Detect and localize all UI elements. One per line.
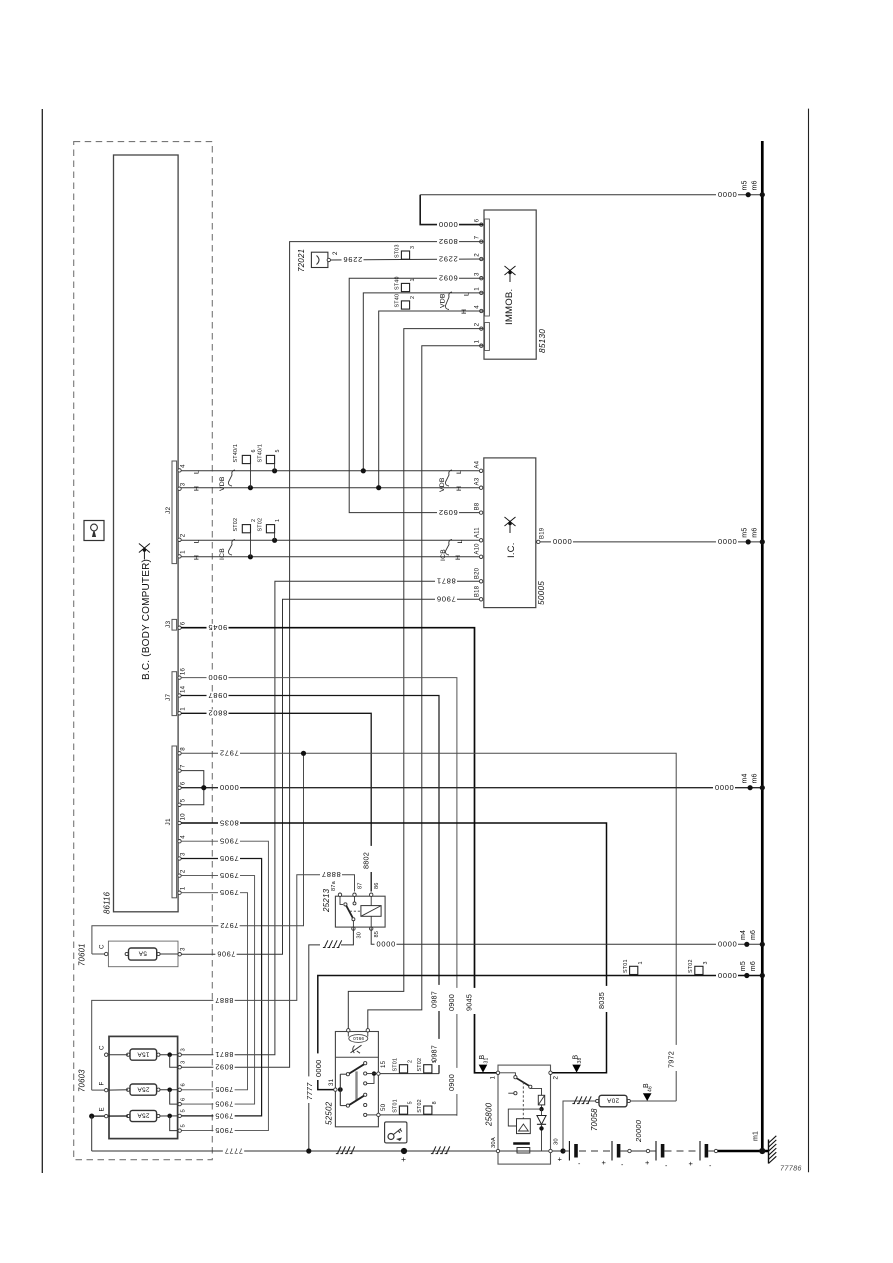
wire ICB-L row J2 pin2 to I.C. A11	[181, 539, 480, 541]
svg-text:8092: 8092	[438, 237, 458, 246]
svg-text:+: +	[689, 1159, 694, 1168]
wire ignition 15 row with ST01/ST02	[380, 1073, 439, 1075]
connector arrow B31	[479, 1065, 488, 1073]
wire fuse 70601 pin C lead	[92, 953, 106, 955]
svg-text:30: 30	[554, 1138, 560, 1145]
svg-text:1: 1	[410, 278, 416, 281]
svg-text:3: 3	[410, 246, 416, 249]
svg-text:-: -	[621, 1162, 624, 1169]
svg-text:C: C	[99, 944, 106, 949]
svg-text:H: H	[194, 486, 201, 491]
fuse 5A	[129, 948, 157, 960]
svg-text:2: 2	[332, 251, 339, 255]
svg-text:H: H	[461, 309, 468, 314]
connector ST02 pin2	[242, 525, 250, 533]
wire H row J2 pin3 to I.C. A3	[181, 487, 480, 489]
svg-text:3: 3	[180, 947, 187, 951]
wire 8887 relay 25213 pin87 to fuse 70603 pin F	[92, 875, 355, 1090]
svg-text:5: 5	[181, 1109, 187, 1112]
svg-text:2: 2	[180, 869, 187, 873]
svg-text:8871: 8871	[436, 577, 456, 586]
svg-text:50005: 50005	[536, 581, 546, 605]
wire 0900 J7 pin16 to ignition switch contact 50	[181, 678, 457, 1116]
svg-text:+: +	[645, 1158, 650, 1167]
svg-text:J3: J3	[165, 621, 172, 628]
svg-text:15A: 15A	[137, 1050, 150, 1057]
svg-text:5A: 5A	[138, 950, 147, 957]
svg-text:ST40/1: ST40/1	[233, 444, 239, 463]
svg-text:VDB: VDB	[219, 476, 226, 491]
svg-text:7905: 7905	[219, 837, 239, 846]
svg-text:0000: 0000	[438, 220, 458, 229]
wire ICB-H row J2 pin1 to I.C. A10	[181, 556, 480, 558]
svg-text:0000: 0000	[219, 783, 239, 792]
svg-text:31: 31	[484, 1058, 490, 1064]
fusebox 70603	[109, 1036, 178, 1138]
svg-text:m6: m6	[751, 773, 758, 783]
svg-text:B18: B18	[474, 585, 480, 597]
svg-text:77786: 77786	[780, 1164, 802, 1173]
svg-text:2292: 2292	[438, 254, 458, 263]
svg-text:m4: m4	[742, 773, 749, 783]
svg-text:0000: 0000	[714, 783, 734, 792]
twisted pair brace VDB at IMMOB	[445, 292, 452, 310]
svg-text:L: L	[456, 470, 463, 474]
svg-text:H: H	[194, 555, 201, 560]
svg-text:70603: 70603	[78, 1069, 87, 1092]
svg-text:8092: 8092	[215, 1063, 234, 1072]
svg-text:7905: 7905	[215, 1111, 234, 1120]
svg-text:85: 85	[374, 931, 380, 938]
svg-text:2296: 2296	[343, 255, 363, 264]
svg-text:VDB: VDB	[440, 293, 447, 308]
svg-text:0000: 0000	[717, 190, 737, 199]
twisted pair brace ICB at I.C.	[445, 540, 452, 556]
switch common bar pin31	[334, 1088, 337, 1091]
svg-text:7: 7	[474, 235, 481, 239]
wire: left page frame line	[41, 109, 43, 1173]
svg-text:3: 3	[703, 961, 709, 964]
twisted pair brace ICB at J2	[228, 540, 235, 556]
svg-text:38: 38	[577, 1058, 583, 1064]
wire 8035 J1 pin10 to starter 25800 pin2 via B38	[181, 823, 607, 1073]
svg-text:1: 1	[638, 961, 644, 964]
relay K1 25213	[335, 896, 385, 927]
svg-text:-: -	[709, 1163, 712, 1170]
svg-text:16: 16	[180, 667, 187, 675]
svg-text:L: L	[194, 540, 201, 544]
svg-text:7972: 7972	[219, 749, 239, 758]
fuse 25A lower	[130, 1110, 157, 1121]
svg-text:15: 15	[380, 1060, 387, 1068]
svg-text:ST40: ST40	[395, 276, 401, 290]
svg-text:F: F	[99, 1082, 106, 1086]
svg-text:ICB: ICB	[219, 548, 226, 560]
svg-text:ST02: ST02	[258, 518, 264, 532]
svg-text:ST01: ST01	[393, 1058, 399, 1072]
switch transponder aerial symbol	[351, 1045, 362, 1053]
svg-text:0000: 0000	[552, 537, 572, 546]
svg-text:ST02: ST02	[688, 959, 694, 973]
starter diode	[537, 1116, 546, 1125]
wire 8871 I.C. B20 to fuse 70603 pin3	[181, 581, 480, 1054]
svg-text:8802: 8802	[208, 709, 228, 718]
svg-text:5: 5	[180, 798, 187, 802]
svg-text:-: -	[665, 1163, 668, 1170]
wire 7906 I.C. B18 to fuse 70601 pin3	[181, 599, 480, 954]
connector ST02 pin1	[266, 525, 274, 533]
svg-text:m5: m5	[742, 180, 749, 190]
svg-text:25A: 25A	[137, 1112, 150, 1119]
svg-text:8035: 8035	[219, 818, 239, 827]
svg-text:5: 5	[432, 1060, 438, 1063]
node rail junction 7777 riser	[306, 1148, 311, 1153]
wire contact 15 link	[367, 1074, 374, 1084]
svg-text:6: 6	[180, 621, 187, 625]
relay contact blade	[340, 896, 343, 904]
svg-text:8871: 8871	[215, 1050, 234, 1059]
svg-text:2: 2	[410, 296, 416, 299]
svg-text:6: 6	[474, 218, 481, 222]
connector J2 of B.C.	[172, 461, 177, 564]
svg-text:1: 1	[490, 1076, 497, 1080]
key symbol of B.C.	[139, 544, 150, 560]
switch SW1 ignition 52502	[335, 1032, 378, 1127]
wire 8802 J7 pin1 to relay 25213 pin 86	[181, 713, 371, 891]
svg-text:0000: 0000	[376, 940, 396, 949]
svg-text:31: 31	[328, 1078, 335, 1086]
connector ST40/1 pin5	[266, 455, 274, 463]
switch rotor shaft	[355, 1071, 357, 1100]
wire: main ground bus to m1	[761, 141, 764, 1151]
svg-text:6: 6	[251, 449, 257, 452]
svg-text:6: 6	[180, 781, 187, 785]
svg-text:87a: 87a	[331, 880, 337, 891]
connector J3 of B.C.	[172, 619, 177, 630]
svg-text:m4: m4	[740, 930, 747, 940]
svg-text:5: 5	[181, 1124, 187, 1127]
svg-text:8887: 8887	[215, 996, 234, 1005]
switch blade lower	[349, 1096, 364, 1105]
svg-text:0000: 0000	[314, 1060, 323, 1078]
svg-text:7905: 7905	[215, 1100, 234, 1109]
svg-text:7905: 7905	[215, 1085, 234, 1094]
ground chassis symbol m1	[768, 1140, 770, 1164]
twisted pair brace VDB at J2	[228, 470, 235, 486]
svg-text:8887: 8887	[321, 870, 341, 879]
svg-text:3: 3	[181, 1061, 187, 1064]
svg-text:0900: 0900	[447, 1074, 456, 1091]
svg-text:1: 1	[180, 550, 187, 554]
svg-text:6: 6	[181, 1098, 187, 1101]
svg-text:7: 7	[180, 764, 187, 768]
svg-text:J1: J1	[165, 818, 172, 825]
svg-text:52502: 52502	[325, 1101, 334, 1125]
fusebox 70601	[108, 941, 178, 967]
wire rail through block	[500, 1150, 549, 1152]
svg-text:86116: 86116	[103, 891, 112, 914]
svg-text:m6: m6	[750, 930, 757, 940]
wire VDB-L IMMOB pin1 down to K-line row	[363, 293, 483, 471]
svg-text:+: +	[401, 1154, 406, 1164]
wire 7972 branch down to fuse 70601 pin C	[92, 753, 304, 954]
wire 7905 J1 pin3 to fuse 70603 pin5a	[181, 859, 262, 1116]
node m5 m6 junction top	[746, 192, 751, 197]
svg-text:4: 4	[180, 464, 187, 468]
wire 0987 J7 pin14 to ignition switch contact 15	[181, 696, 439, 1074]
svg-text:7972: 7972	[667, 1051, 676, 1068]
svg-text:9045: 9045	[465, 994, 474, 1011]
starter switch blade	[500, 1073, 516, 1076]
svg-text:7972: 7972	[220, 921, 239, 930]
wire fuse 70601 pin 3 lead	[160, 953, 180, 955]
svg-text:8035: 8035	[597, 992, 606, 1009]
svg-text:+: +	[602, 1158, 607, 1167]
svg-text:20000: 20000	[634, 1119, 643, 1143]
wire 7777 battery positive rail	[92, 1150, 563, 1152]
wire 0000 IMMOB pin6 to ground bus m5/m6	[420, 195, 483, 225]
connector ST02 pin3 inline	[695, 966, 703, 974]
op-amp U-IMMOB: immobilizer unit 85130	[484, 210, 536, 359]
svg-text:m5: m5	[742, 528, 749, 538]
connector ST40/1 pin6	[242, 455, 250, 463]
svg-text:6: 6	[181, 1083, 187, 1086]
wire 7777 relay 25213 pin30 to positive rail	[341, 929, 353, 945]
svg-text:m5: m5	[740, 961, 747, 971]
svg-text:ST01: ST01	[623, 959, 629, 973]
svg-text:H: H	[456, 486, 463, 491]
svg-text:E: E	[99, 1107, 106, 1111]
svg-text:ST40/1: ST40/1	[258, 444, 264, 463]
fuse F 70058 20A	[599, 1095, 627, 1107]
svg-text:1: 1	[180, 886, 187, 890]
wire 7905 J1 pin1 to fuse 70603 pin6a	[181, 893, 248, 1090]
svg-text:B.C. (BODY COMPUTER): B.C. (BODY COMPUTER)	[141, 559, 152, 680]
svg-text:0000: 0000	[717, 537, 737, 546]
svg-text:7777: 7777	[224, 1146, 243, 1155]
svg-text:6092: 6092	[438, 274, 458, 283]
svg-text:9910: 9910	[353, 1036, 364, 1041]
wire 2296 / 2292 key to IMMOB pin2 via ST03	[331, 259, 484, 260]
svg-text:A4: A4	[474, 460, 480, 468]
svg-text:3: 3	[180, 482, 187, 486]
svg-text:A10: A10	[474, 543, 480, 555]
key-in-square icon left of B.C.	[84, 521, 104, 541]
svg-text:30A: 30A	[491, 1137, 497, 1148]
svg-text:J7: J7	[165, 694, 172, 701]
svg-text:8: 8	[180, 747, 187, 751]
wire VDB-H IMMOB pin4 down to row	[379, 311, 483, 488]
svg-text:30: 30	[357, 932, 363, 939]
svg-text:J2: J2	[165, 507, 172, 514]
wire battery positive to ground bus m1	[718, 1150, 769, 1153]
svg-text:10: 10	[180, 813, 187, 821]
node: B.C. body computer dashed boundary	[74, 142, 213, 1160]
svg-text:ST02: ST02	[417, 1099, 423, 1113]
starter resistor	[530, 1088, 541, 1095]
wire 8092 IMMOB pin7 down to fuse 70603 pin3	[181, 242, 483, 1068]
op-amp U-BC: body computer block 86116	[114, 155, 179, 912]
svg-text:L: L	[464, 292, 471, 296]
svg-text:A11: A11	[474, 527, 480, 538]
svg-text:1: 1	[474, 287, 481, 291]
svg-text:87: 87	[358, 882, 364, 889]
svg-text:2: 2	[553, 1076, 560, 1080]
svg-text:3: 3	[180, 852, 187, 856]
svg-text:8802: 8802	[362, 852, 371, 869]
svg-text:7905: 7905	[219, 854, 239, 863]
svg-text:50: 50	[380, 1103, 387, 1111]
svg-text:I.C.: I.C.	[506, 542, 517, 558]
wire 7972 J1 pin8 branch to 70601 and down to fuse 70058	[181, 753, 676, 1101]
svg-text:VDB: VDB	[439, 477, 446, 492]
svg-text:5: 5	[275, 449, 281, 452]
switch contacts	[364, 1062, 367, 1065]
svg-text:2: 2	[474, 253, 481, 257]
fuse 15A	[130, 1049, 157, 1060]
fuse 25A upper	[130, 1084, 157, 1095]
node: I.C. pin B19	[537, 540, 540, 543]
svg-text:25213: 25213	[322, 888, 331, 913]
svg-text:ICB: ICB	[440, 549, 447, 561]
svg-text:ST03: ST03	[395, 244, 401, 258]
wire 7905 J1 pin2 to fuse 70603 pin6b	[181, 876, 255, 1105]
wire 9045 J3 pin6 to starter 25800 pin1 via B31	[181, 628, 497, 1073]
svg-text:ST02: ST02	[417, 1058, 423, 1072]
svg-text:6092: 6092	[438, 508, 458, 517]
svg-text:B20: B20	[474, 567, 480, 579]
svg-text:ST40: ST40	[395, 294, 401, 308]
svg-text:B8: B8	[474, 502, 480, 510]
svg-text:ST02: ST02	[233, 518, 239, 532]
twisted pair brace VDB at I.C.	[445, 470, 452, 486]
svg-text:46: 46	[648, 1086, 654, 1092]
svg-text:L: L	[457, 540, 464, 544]
node: H row junctions	[248, 485, 253, 490]
svg-text:2: 2	[408, 1060, 414, 1063]
svg-text:C: C	[99, 1045, 106, 1050]
svg-text:7906: 7906	[436, 595, 456, 604]
svg-text:H: H	[455, 555, 462, 560]
svg-text:0987: 0987	[208, 691, 228, 700]
svg-text:3: 3	[474, 272, 481, 276]
wire 0000 J1 pins 5-6-7 to ground bus m4/m6	[181, 771, 204, 805]
wire 0000 I.C. B19 to ground bus m5/m6	[540, 541, 762, 543]
svg-text:B19: B19	[540, 527, 546, 539]
svg-text:7906: 7906	[217, 950, 236, 959]
svg-text:8: 8	[432, 1101, 438, 1104]
svg-text:m1: m1	[753, 1131, 760, 1141]
svg-text:+: +	[558, 1155, 563, 1164]
connector arrow B46	[643, 1093, 652, 1101]
svg-text:85130: 85130	[537, 329, 547, 353]
svg-text:25A: 25A	[137, 1085, 150, 1092]
svg-text:1: 1	[275, 519, 281, 522]
svg-text:4: 4	[474, 305, 481, 309]
svg-text:25800: 25800	[485, 1102, 494, 1127]
starter solenoid coil	[508, 1109, 541, 1126]
connector ST01 pin1 inline	[630, 966, 638, 974]
svg-text:0000: 0000	[717, 971, 737, 980]
svg-text:72021: 72021	[297, 249, 306, 272]
svg-text:7905: 7905	[219, 888, 239, 897]
svg-text:70601: 70601	[78, 943, 87, 966]
key position icon	[385, 1122, 407, 1143]
node rail positive tap	[401, 1148, 407, 1154]
wire 7905 J1 pin4 to fuse 70603 pin5b	[181, 841, 268, 1130]
node: L row junctions	[272, 468, 277, 473]
svg-text:L: L	[194, 470, 201, 474]
svg-text:4: 4	[180, 835, 187, 839]
svg-text:14: 14	[180, 685, 187, 693]
motor M 25800 starter unit	[498, 1065, 551, 1164]
svg-text:70058: 70058	[590, 1108, 599, 1131]
connector arrow B38	[572, 1065, 581, 1073]
wire ignition 50 row with ST01/ST02	[380, 1114, 457, 1116]
connector J1 of B.C.	[172, 746, 177, 898]
svg-text:2: 2	[251, 519, 257, 522]
wire battery feed to fuse 70058	[563, 1101, 599, 1151]
connector J7 of B.C.	[172, 672, 177, 716]
relay coil	[361, 906, 381, 917]
wire 6092 IMMOB pin3 to I.C. pin B8	[349, 278, 483, 512]
op-amp U-IC: instrument cluster 50005	[484, 458, 536, 608]
svg-text:0900: 0900	[208, 673, 228, 682]
svg-text:-: -	[578, 1161, 581, 1168]
svg-text:0900: 0900	[447, 994, 456, 1011]
svg-text:3: 3	[181, 1048, 187, 1051]
svg-text:9045: 9045	[208, 623, 228, 632]
svg-text:ST01: ST01	[393, 1099, 399, 1113]
wire L row J2 pin4 to I.C. A4	[181, 470, 480, 472]
svg-text:1: 1	[474, 340, 481, 344]
svg-text:0987: 0987	[429, 991, 438, 1008]
wire E junction down to positive rail	[91, 1116, 93, 1151]
switch aerial connector 9910	[347, 1029, 350, 1032]
svg-text:7777: 7777	[305, 1082, 314, 1100]
svg-text:7905: 7905	[219, 871, 239, 880]
starter motor brushes	[513, 1142, 530, 1145]
connector ST03 pin3 inline	[401, 251, 409, 259]
svg-text:7905: 7905	[215, 1126, 234, 1135]
wire fuse C out to pins 3,3	[160, 1054, 180, 1056]
svg-text:1: 1	[180, 707, 187, 711]
battery cell 1	[568, 1141, 570, 1161]
svg-text:5: 5	[408, 1101, 414, 1104]
wire fuse 70058 to riser 7972 via B46	[631, 1100, 677, 1102]
switch blade upper	[349, 1064, 364, 1073]
wire 0000 relay 25213 pin85 to ground bus m4/m6	[371, 929, 762, 945]
svg-text:86: 86	[374, 882, 380, 889]
wire: right page frame line	[808, 109, 810, 1173]
svg-text:2: 2	[474, 322, 481, 326]
svg-text:0987: 0987	[429, 1045, 438, 1062]
connector ST40 pin2 inline on H	[401, 301, 409, 309]
svg-text:A3: A3	[474, 477, 480, 485]
svg-text:m6: m6	[750, 961, 757, 971]
component 72021: ignition key with transponder	[311, 252, 328, 267]
wire IMMOB pin1 to ignition switch aerial right	[368, 346, 483, 1029]
svg-text:2: 2	[180, 533, 187, 537]
svg-text:0000: 0000	[717, 940, 737, 949]
wire pin E to rail junction	[92, 1115, 128, 1117]
wire 0000 ignition switch pin31 to ground bus m5/m6	[318, 976, 763, 1090]
svg-text:m6: m6	[751, 528, 758, 538]
svg-text:IMMOB.: IMMOB.	[504, 289, 515, 325]
svg-text:20A: 20A	[606, 1097, 619, 1104]
svg-text:m6: m6	[751, 180, 758, 190]
wire IMMOB pin2 to ignition switch aerial left	[348, 329, 483, 1029]
